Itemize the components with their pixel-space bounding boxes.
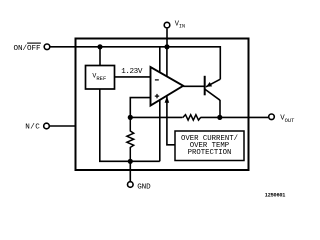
terminal VOUT <box>269 114 275 120</box>
wire: VIN terminal drop <box>166 29 168 47</box>
terminal ON/OFF <box>44 44 50 50</box>
terminal GND <box>128 182 134 188</box>
op-amp plus sign <box>155 95 159 97</box>
node: output node dot <box>217 115 222 120</box>
wire: feedback node to non-inverting input <box>130 98 150 118</box>
resistor R1 horizontal zigzag <box>182 115 201 120</box>
label protection box text <box>181 135 238 157</box>
wire: Vref ground drop and internal ground rail <box>100 89 160 161</box>
node: ground node dot <box>128 159 133 164</box>
node: junction dot on rail above Vref <box>97 44 102 49</box>
label ON/OFF <box>14 43 42 53</box>
transistor emitter diagonal <box>206 79 220 87</box>
wire: protection-to-amp line (hidden behind op-amp) <box>167 47 175 145</box>
wire: ground drop to GND terminal <box>129 161 131 181</box>
resistor R2 vertical zigzag <box>127 117 134 161</box>
op-amp minus sign <box>155 79 159 81</box>
terminal N/C <box>44 123 50 129</box>
wire: Vref output to inverting input, 1.23V net <box>115 76 151 78</box>
wire: collector to output node <box>219 100 221 117</box>
arrowhead: protection feedback into op-amp <box>165 96 170 103</box>
svg-text:ON/OFF: ON/OFF <box>14 45 42 53</box>
transistor emitter arrowhead <box>206 82 212 87</box>
transistor collector diagonal <box>205 90 220 101</box>
svg-text:GND: GND <box>137 184 151 192</box>
wire: feedback bottom rail from divider to Vout <box>130 116 182 118</box>
Vref block box <box>86 66 115 90</box>
wire: ON/OFF rail to transistor emitter corner <box>51 47 221 79</box>
wire: Vref enable drop <box>99 47 101 66</box>
over current / over temp protection box <box>175 131 244 161</box>
svg-text:1.23V: 1.23V <box>121 68 143 76</box>
terminal VIN <box>164 22 170 28</box>
IC boundary box <box>76 39 249 171</box>
transistor base bar <box>204 76 206 96</box>
op-amp U1 error amplifier <box>151 67 184 106</box>
wire: amp supply drop (hidden behind op-amp) <box>159 47 161 162</box>
wire: op-amp output to transistor base <box>183 85 204 87</box>
svg-text:N/C: N/C <box>25 124 40 132</box>
svg-text:PROTECTION: PROTECTION <box>188 149 232 157</box>
node: divider tap dot <box>128 115 133 120</box>
node: junction dot VIN on rail <box>164 44 169 49</box>
svg-text:1250601: 1250601 <box>265 192 285 198</box>
wire: N/C terminal lead <box>50 125 77 127</box>
